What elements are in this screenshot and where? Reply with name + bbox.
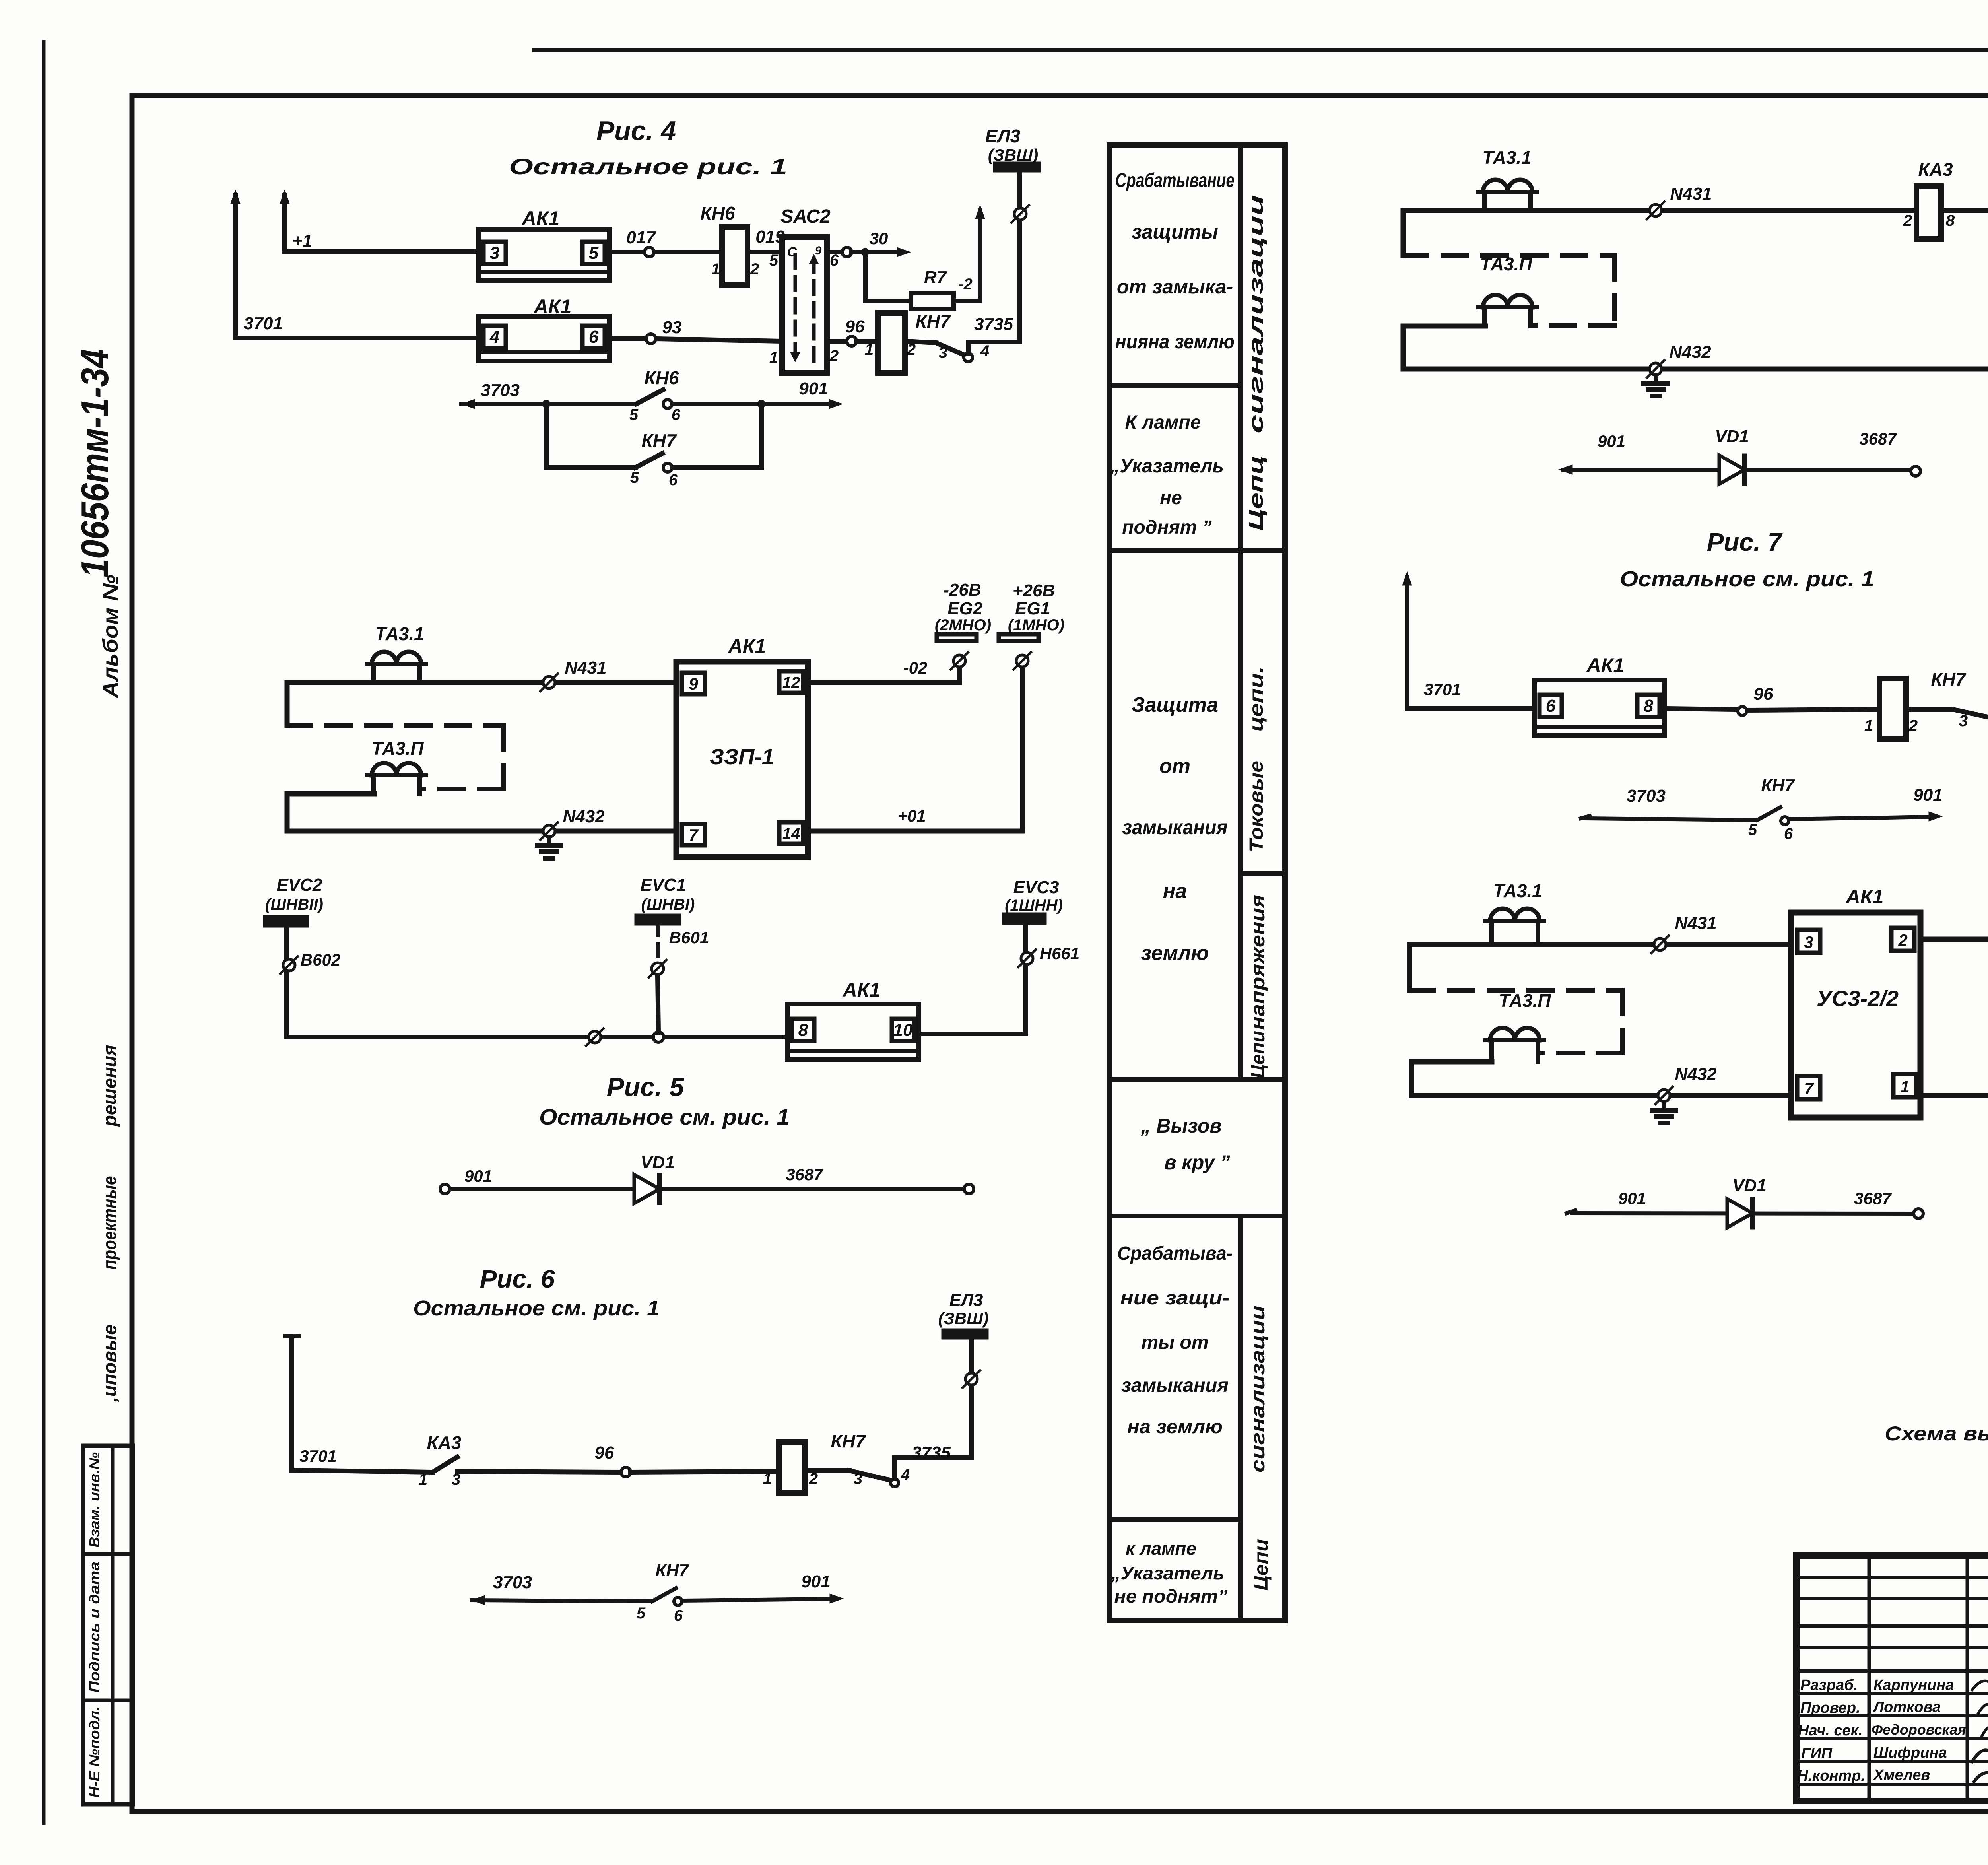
svg-text:‚иповые: ‚иповые [99, 1325, 120, 1403]
svg-text:(ШНВI): (ШНВI) [641, 896, 695, 913]
svg-text:КН7: КН7 [831, 1431, 866, 1451]
terminal EG2 fig5 [957, 667, 962, 682]
svg-text:96: 96 [1754, 684, 1773, 704]
fig7 lower row wire [1586, 818, 1757, 820]
svg-text:-2: -2 [958, 276, 973, 293]
fig4 branch to R7 [865, 252, 911, 301]
fig8 bottom wire N432 [1411, 1093, 1791, 1098]
svg-text:017: 017 [626, 228, 656, 247]
relay AK1 ZZP-1 [676, 662, 808, 857]
svg-text:3703: 3703 [1627, 786, 1666, 806]
svg-text:ЗЗП-1: ЗЗП-1 [710, 744, 774, 769]
svg-text:ЕЛ3: ЕЛ3 [949, 1290, 983, 1310]
figr1 left vertical upper [1401, 210, 1406, 255]
fig6 lower row wire [472, 1600, 652, 1601]
svg-text:ние защи-: ние защи- [1120, 1288, 1230, 1309]
relay KH7 coil fig7 [1879, 678, 1906, 739]
svg-text:В602: В602 [301, 950, 340, 969]
fig8 left vertical upper [1407, 944, 1412, 990]
figr1 top wire N431 [1403, 208, 1916, 213]
svg-text:Рис. 6: Рис. 6 [480, 1265, 555, 1293]
svg-text:ЕVС3: ЕVС3 [1013, 878, 1059, 897]
svg-text:В601: В601 [669, 928, 709, 947]
svg-text:КН7: КН7 [1761, 776, 1795, 795]
svg-text:5: 5 [1748, 821, 1757, 839]
svg-text:5: 5 [637, 1605, 646, 1622]
switch SAC2 [782, 237, 827, 373]
svg-text:3: 3 [939, 344, 947, 361]
fig4 wire 3701 row2 [235, 336, 479, 340]
relay AK1 (3-5) [479, 229, 610, 280]
svg-text:Шифрина: Шифрина [1873, 1745, 1947, 1761]
svg-text:на: на [1163, 880, 1187, 903]
fig8 wire +01 [1920, 1093, 1988, 1098]
fig5 left vertical lower [285, 794, 290, 831]
fig8 diode row wire [1572, 1213, 1914, 1214]
svg-text:(ЗВШ): (ЗВШ) [988, 146, 1038, 164]
figr1 left vertical lower [1401, 326, 1406, 369]
fig6 main wire b [457, 1471, 621, 1472]
svg-text:(1ШНН): (1ШНН) [1005, 897, 1063, 914]
svg-text:не поднят”: не поднят” [1114, 1586, 1228, 1607]
svg-text:+1: +1 [292, 231, 312, 251]
svg-text:1: 1 [1864, 717, 1873, 734]
fig4 wire row1 [285, 249, 479, 254]
svg-text:АК1: АК1 [1845, 886, 1884, 908]
fig6 main wire c [631, 1471, 779, 1472]
svg-text:КН7: КН7 [641, 430, 677, 451]
svg-text:АК1: АК1 [1586, 654, 1625, 676]
svg-text:Подпись и дата: Подпись и дата [86, 1562, 103, 1693]
button KH6 coil [722, 227, 747, 285]
ground fig-r1 [1654, 375, 1658, 383]
fig5 wire to EVC3 [919, 1032, 1026, 1036]
fig8 top wire N431 [1409, 942, 1791, 947]
svg-text:3687: 3687 [1859, 429, 1897, 448]
svg-text:от замыка-: от замыка- [1117, 276, 1233, 298]
relay KA3 coil [1916, 186, 1941, 239]
fig4 wire +1 vertical [282, 196, 287, 251]
svg-text:Остальное см. рис. 1: Остальное см. рис. 1 [539, 1104, 790, 1129]
figr1 dashed top [1403, 253, 1615, 258]
svg-text:901: 901 [464, 1167, 492, 1185]
svg-text:напряжения: напряжения [1248, 895, 1269, 1030]
svg-text:5: 5 [589, 243, 599, 263]
contact KA3 fig6 [433, 1457, 457, 1472]
svg-text:КН6: КН6 [644, 367, 679, 388]
svg-text:Федоровская: Федоровская [1872, 1721, 1966, 1738]
svg-text:Н-Е №подл.: Н-Е №подл. [86, 1706, 103, 1798]
figr1 diode row wire [1563, 468, 1911, 472]
svg-text:3: 3 [1804, 933, 1813, 952]
relay AK1 (8-10) [787, 1004, 919, 1060]
contact KH6 lower [636, 390, 663, 404]
diode VD1 fig8 [1727, 1199, 1753, 1228]
svg-text:6: 6 [589, 327, 599, 347]
fig5 bottom wire N432 [287, 829, 676, 834]
svg-text:цепи.: цепи. [1246, 666, 1267, 732]
fig4 wire 3701 left vertical [233, 196, 238, 338]
svg-text:ТА3.1: ТА3.1 [1482, 147, 1532, 168]
svg-text:6: 6 [674, 1607, 683, 1624]
fig4 wire to KH7 [856, 339, 878, 344]
diode VD1 fig5 [634, 1175, 660, 1203]
figr1 top wire b [1941, 208, 1988, 213]
svg-text:3: 3 [1959, 712, 1968, 730]
relay KH7 coil fig4 [878, 313, 905, 373]
fig4 wire R7 to vertical [953, 211, 980, 301]
fig7 lower row right [1790, 817, 1933, 819]
svg-text:N431: N431 [1675, 913, 1716, 933]
svg-text:901: 901 [1598, 432, 1625, 451]
fig5 top wire N431 [287, 680, 676, 685]
svg-text:6: 6 [1546, 696, 1556, 716]
svg-text:(ШНВII): (ШНВII) [265, 896, 323, 913]
svg-text:+01: +01 [897, 806, 926, 825]
svg-text:8: 8 [798, 1020, 808, 1040]
fig4 wire row1 c [655, 250, 722, 254]
fig6 left vertical [289, 1336, 294, 1470]
svg-text:5: 5 [769, 252, 779, 269]
contact KH7 fig7 lower [1757, 807, 1780, 820]
svg-text:ТА3.1: ТА3.1 [375, 624, 424, 644]
fig4 wire row2 b [610, 336, 645, 341]
node 96 fig6 [621, 1467, 631, 1477]
fig5 wire TA3P left [287, 791, 374, 797]
svg-text:N432: N432 [563, 807, 605, 826]
svg-text:КН7: КН7 [655, 1561, 689, 1580]
svg-text:1: 1 [1900, 1077, 1909, 1096]
svg-text:ты от: ты от [1141, 1332, 1208, 1353]
svg-text:3735: 3735 [974, 315, 1013, 334]
title block left rows [1796, 1576, 1988, 1579]
svg-text:3701: 3701 [244, 314, 283, 333]
fig6 lower row right [683, 1599, 832, 1601]
node 96 fig7 [1738, 707, 1747, 715]
fig4 bypass branch right [672, 404, 761, 468]
svg-text:3701: 3701 [299, 1447, 336, 1465]
lamp EL3 fig6 [969, 1339, 974, 1458]
svg-text:7: 7 [1804, 1079, 1814, 1098]
svg-text:2: 2 [750, 260, 759, 278]
fig4 wire row2 d [827, 339, 846, 344]
svg-text:АК1: АК1 [842, 979, 881, 1001]
svg-text:ТА3.П: ТА3.П [1499, 990, 1551, 1011]
svg-text:Цепи: Цепи [1251, 1539, 1272, 1591]
svg-text:ЕG2: ЕG2 [947, 599, 983, 618]
svg-text:VD1: VD1 [641, 1153, 675, 1172]
svg-text:8: 8 [1946, 212, 1955, 229]
svg-text:7: 7 [689, 826, 699, 844]
fig8 left vertical lower [1409, 1062, 1414, 1096]
svg-text:(ЗВШ): (ЗВШ) [938, 1309, 988, 1328]
fig4 lower wire right [672, 402, 831, 406]
svg-text:Остальное см. рис. 1: Остальное см. рис. 1 [413, 1296, 660, 1320]
ground fig8 [1662, 1102, 1666, 1110]
svg-text:4: 4 [489, 327, 499, 347]
svg-text:Н.контр.: Н.контр. [1797, 1768, 1865, 1784]
contact KH7 fig4 [905, 341, 936, 343]
svg-text:Рис. 7: Рис. 7 [1707, 528, 1783, 556]
svg-text:1: 1 [419, 1471, 427, 1488]
terminal EG1 fig5 [1020, 667, 1025, 831]
node circle after SAC2 [842, 247, 852, 257]
svg-text:901: 901 [1913, 785, 1942, 805]
svg-text:93: 93 [662, 318, 682, 337]
svg-text:1: 1 [711, 260, 720, 278]
svg-text:1: 1 [865, 341, 874, 358]
svg-text:96: 96 [845, 317, 865, 336]
svg-text:Защита: Защита [1132, 694, 1218, 717]
svg-text:4: 4 [980, 342, 989, 360]
middle table frame [1109, 145, 1285, 1620]
fig5 voltage wire [286, 1035, 787, 1039]
svg-text:проектные: проектные [99, 1176, 120, 1270]
fig8 dashed right [1620, 990, 1625, 1053]
svg-text:КА3: КА3 [1918, 159, 1953, 180]
middle table row line 3 [1109, 1077, 1285, 1082]
middle table row line 4 [1109, 1214, 1285, 1218]
svg-text:Срабатыва-: Срабатыва- [1117, 1243, 1233, 1264]
contact KH7 fig7 [1906, 707, 1953, 712]
svg-text:ТА3.П: ТА3.П [1480, 254, 1532, 274]
svg-text:901: 901 [801, 1572, 830, 1591]
svg-text:Токовые: Токовые [1246, 761, 1267, 852]
figr1 dashed bottom [1531, 323, 1615, 328]
svg-text:N431: N431 [565, 658, 606, 678]
svg-text:Цепц: Цепц [1245, 455, 1267, 531]
middle table row line 2 [1109, 548, 1285, 553]
fig7 left vertical [1405, 577, 1409, 709]
relay AK1 (6-8) [1535, 680, 1664, 736]
svg-text:Взам. инв.№: Взам. инв.№ [86, 1452, 103, 1548]
svg-text:3703: 3703 [493, 1573, 532, 1592]
fig4 wire row1 d [747, 250, 782, 254]
fig8 dashed top [1409, 988, 1622, 993]
svg-text:АК1: АК1 [728, 635, 766, 657]
fig5 diode row wire [450, 1187, 964, 1191]
fig5 wire +01 [808, 829, 1022, 834]
EVC2 drop wire [284, 925, 289, 1037]
svg-text:3687: 3687 [1854, 1189, 1892, 1208]
fig4 bypass branch [546, 404, 635, 468]
svg-text:N432: N432 [1669, 342, 1711, 362]
fig4 wire 3735 [968, 342, 1018, 353]
svg-text:Схема выполнена на лист: Схема выполнена на листах 30, 31, 32, 33… [1885, 1422, 1988, 1445]
svg-text:поднят ”: поднят ” [1122, 517, 1212, 538]
svg-text:Остальное см. рис. 1: Остальное см. рис. 1 [1620, 567, 1874, 591]
svg-text:Альбом №: Альбом № [99, 575, 122, 699]
svg-text:КА3: КА3 [427, 1432, 461, 1453]
svg-text:ТА3.1: ТА3.1 [1493, 880, 1542, 901]
title block frame [1796, 1556, 1988, 1801]
svg-text:„Указатель: „Указатель [1110, 1563, 1224, 1583]
svg-text:2: 2 [829, 347, 839, 365]
svg-text:Провер.: Провер. [1800, 1700, 1860, 1716]
svg-text:-26В: -26В [943, 580, 981, 600]
node circle mid [589, 1031, 601, 1043]
svg-text:10656тм-1-34: 10656тм-1-34 [73, 349, 116, 578]
fig5 left vertical upper [285, 682, 290, 725]
svg-text:901: 901 [1618, 1189, 1646, 1208]
figr1 dashed right [1612, 255, 1617, 325]
node 96 fig4 [847, 336, 856, 346]
fig5 dashed link right [501, 725, 506, 789]
svg-text:ТА3.П: ТА3.П [371, 738, 424, 759]
svg-text:Цепи: Цепи [1248, 1031, 1269, 1078]
node 93 [646, 334, 656, 344]
svg-text:3703: 3703 [481, 381, 520, 400]
svg-text:2: 2 [1898, 931, 1907, 950]
fig5 dashed link top [287, 723, 503, 728]
fig4 wire row1 b [610, 250, 644, 254]
svg-text:6: 6 [669, 471, 678, 489]
node 017 [645, 247, 654, 257]
svg-text:сигнализации: сигнализации [1248, 1305, 1269, 1473]
middle table row line 5 [1109, 1517, 1241, 1522]
fig7 wire b [1664, 709, 1737, 709]
svg-text:Срабатывание: Срабатывание [1115, 169, 1235, 191]
contact KH7 fig6 lower [652, 1588, 676, 1601]
svg-text:Разраб.: Разраб. [1800, 1677, 1858, 1694]
middle table column split [1238, 145, 1243, 1079]
fig4 wire row2 c [656, 339, 782, 341]
resistor R7 [911, 293, 953, 309]
relay AK1 (4-6) [479, 317, 610, 361]
svg-text:не: не [1160, 488, 1182, 509]
svg-text:3: 3 [490, 243, 499, 263]
svg-text:R7: R7 [924, 268, 947, 287]
svg-text:N431: N431 [1670, 184, 1712, 204]
svg-text:9: 9 [689, 674, 698, 693]
svg-text:в кру ”: в кру ” [1164, 1151, 1230, 1173]
fig5 dashed link bottom [419, 787, 503, 791]
node 30 junction [852, 250, 865, 254]
fig8 dashed bottom [1540, 1051, 1622, 1055]
svg-text:решения: решения [99, 1045, 120, 1127]
svg-text:„ Вызов: „ Вызов [1140, 1115, 1221, 1137]
fig7 main wire a [1407, 706, 1535, 711]
fig4 lower wire 3703-901 [461, 402, 636, 406]
svg-text:АК1: АК1 [533, 295, 572, 318]
svg-text:30: 30 [870, 229, 888, 248]
svg-text:5: 5 [630, 469, 639, 486]
svg-text:5: 5 [629, 406, 639, 424]
svg-text:К лампе: К лампе [1125, 412, 1201, 433]
svg-text:„Указатель: „Указатель [1110, 456, 1224, 477]
svg-text:УС3-2/2: УС3-2/2 [1817, 986, 1899, 1011]
signatures [1972, 1681, 1988, 1697]
svg-text:к лампе: к лампе [1126, 1538, 1196, 1559]
fig5 wire -02 [808, 680, 959, 685]
middle table right col divider [1241, 871, 1285, 876]
fig8 wire TA3P left [1411, 1059, 1492, 1065]
svg-text:ГИП: ГИП [1801, 1745, 1833, 1762]
svg-text:8: 8 [1644, 696, 1654, 716]
svg-text:от: от [1159, 755, 1190, 778]
junction dots fig4 lower [542, 400, 550, 408]
contact KH7 fig6 [805, 1468, 849, 1473]
svg-text:Лоткова: Лоткова [1872, 1699, 1941, 1715]
middle table row line 1 [1109, 383, 1241, 388]
svg-text:замыкания: замыкания [1122, 816, 1228, 839]
title block verticals [1868, 1556, 1871, 1801]
svg-text:VD1: VD1 [1715, 427, 1749, 446]
svg-text:ЕVС1: ЕVС1 [641, 875, 686, 895]
svg-text:Рис. 5: Рис. 5 [607, 1072, 685, 1102]
lamp EL3 fig4 [1017, 170, 1022, 342]
contact KH7 lower [635, 453, 662, 468]
svg-text:2: 2 [1908, 717, 1918, 734]
svg-text:-02: -02 [903, 659, 928, 677]
fig6 wire 3735 [895, 1458, 971, 1479]
svg-text:6: 6 [672, 406, 681, 424]
svg-text:КН7: КН7 [915, 311, 951, 332]
svg-text:КН6: КН6 [700, 203, 735, 223]
svg-text:замыкания: замыкания [1121, 1375, 1229, 1396]
svg-text:Нач. сек.: Нач. сек. [1798, 1722, 1862, 1739]
svg-text:на землю: на землю [1127, 1416, 1223, 1438]
svg-text:Н661: Н661 [1040, 944, 1079, 963]
svg-text:АК1: АК1 [521, 207, 560, 229]
svg-text:96: 96 [595, 1443, 614, 1463]
svg-text:1: 1 [769, 349, 778, 366]
svg-text:3701: 3701 [1424, 680, 1461, 699]
svg-text:9: 9 [815, 244, 822, 257]
svg-text:1: 1 [763, 1470, 772, 1488]
svg-text:N432: N432 [1675, 1065, 1717, 1084]
svg-text:10: 10 [893, 1020, 913, 1040]
svg-text:(2МНО): (2МНО) [935, 616, 991, 634]
svg-text:12: 12 [782, 674, 800, 692]
fig4 wire after SAC2 [827, 250, 842, 254]
svg-text:3: 3 [854, 1470, 862, 1488]
top band line [535, 48, 1988, 52]
svg-text:ЕG1: ЕG1 [1015, 599, 1050, 618]
svg-text:нияна землю: нияна землю [1115, 330, 1235, 353]
svg-text:VD1: VD1 [1732, 1176, 1767, 1195]
fig7 wire c [1747, 709, 1879, 710]
svg-text:сигнализации: сигнализации [1245, 195, 1267, 433]
fig6 main wire a [292, 1470, 433, 1472]
svg-text:Карпунина: Карпунина [1873, 1677, 1954, 1694]
relay KH7 coil fig6 [779, 1442, 805, 1493]
svg-text:3687: 3687 [786, 1165, 823, 1184]
ground fig5 [547, 837, 551, 845]
svg-text:КН7: КН7 [1931, 669, 1966, 690]
svg-text:защиты: защиты [1132, 221, 1218, 243]
svg-text:14: 14 [782, 825, 800, 843]
svg-text:3735: 3735 [912, 1443, 951, 1463]
svg-text:2: 2 [1903, 212, 1912, 229]
svg-text:6: 6 [1784, 825, 1793, 843]
svg-text:ЕЛ3: ЕЛ3 [985, 126, 1021, 146]
svg-text:ЕVС2: ЕVС2 [277, 875, 322, 895]
svg-text:+26В: +26В [1013, 581, 1055, 600]
EVC1 drop wire [656, 923, 660, 962]
svg-text:Остальное рис. 1: Остальное рис. 1 [509, 154, 787, 179]
EVC3 drop wire [1023, 923, 1028, 1034]
svg-text:4: 4 [901, 1466, 910, 1484]
node EVC1 junction [653, 1032, 664, 1042]
svg-text:землю: землю [1141, 942, 1209, 965]
figr1 bottom wire N432 [1403, 367, 1988, 372]
fig8 wire -02 [1920, 937, 1988, 942]
stamp table [83, 1446, 133, 1804]
diode VD1 fig-r1 [1719, 455, 1745, 484]
svg-text:SАС2: SАС2 [780, 206, 831, 227]
svg-text:901: 901 [799, 379, 828, 398]
